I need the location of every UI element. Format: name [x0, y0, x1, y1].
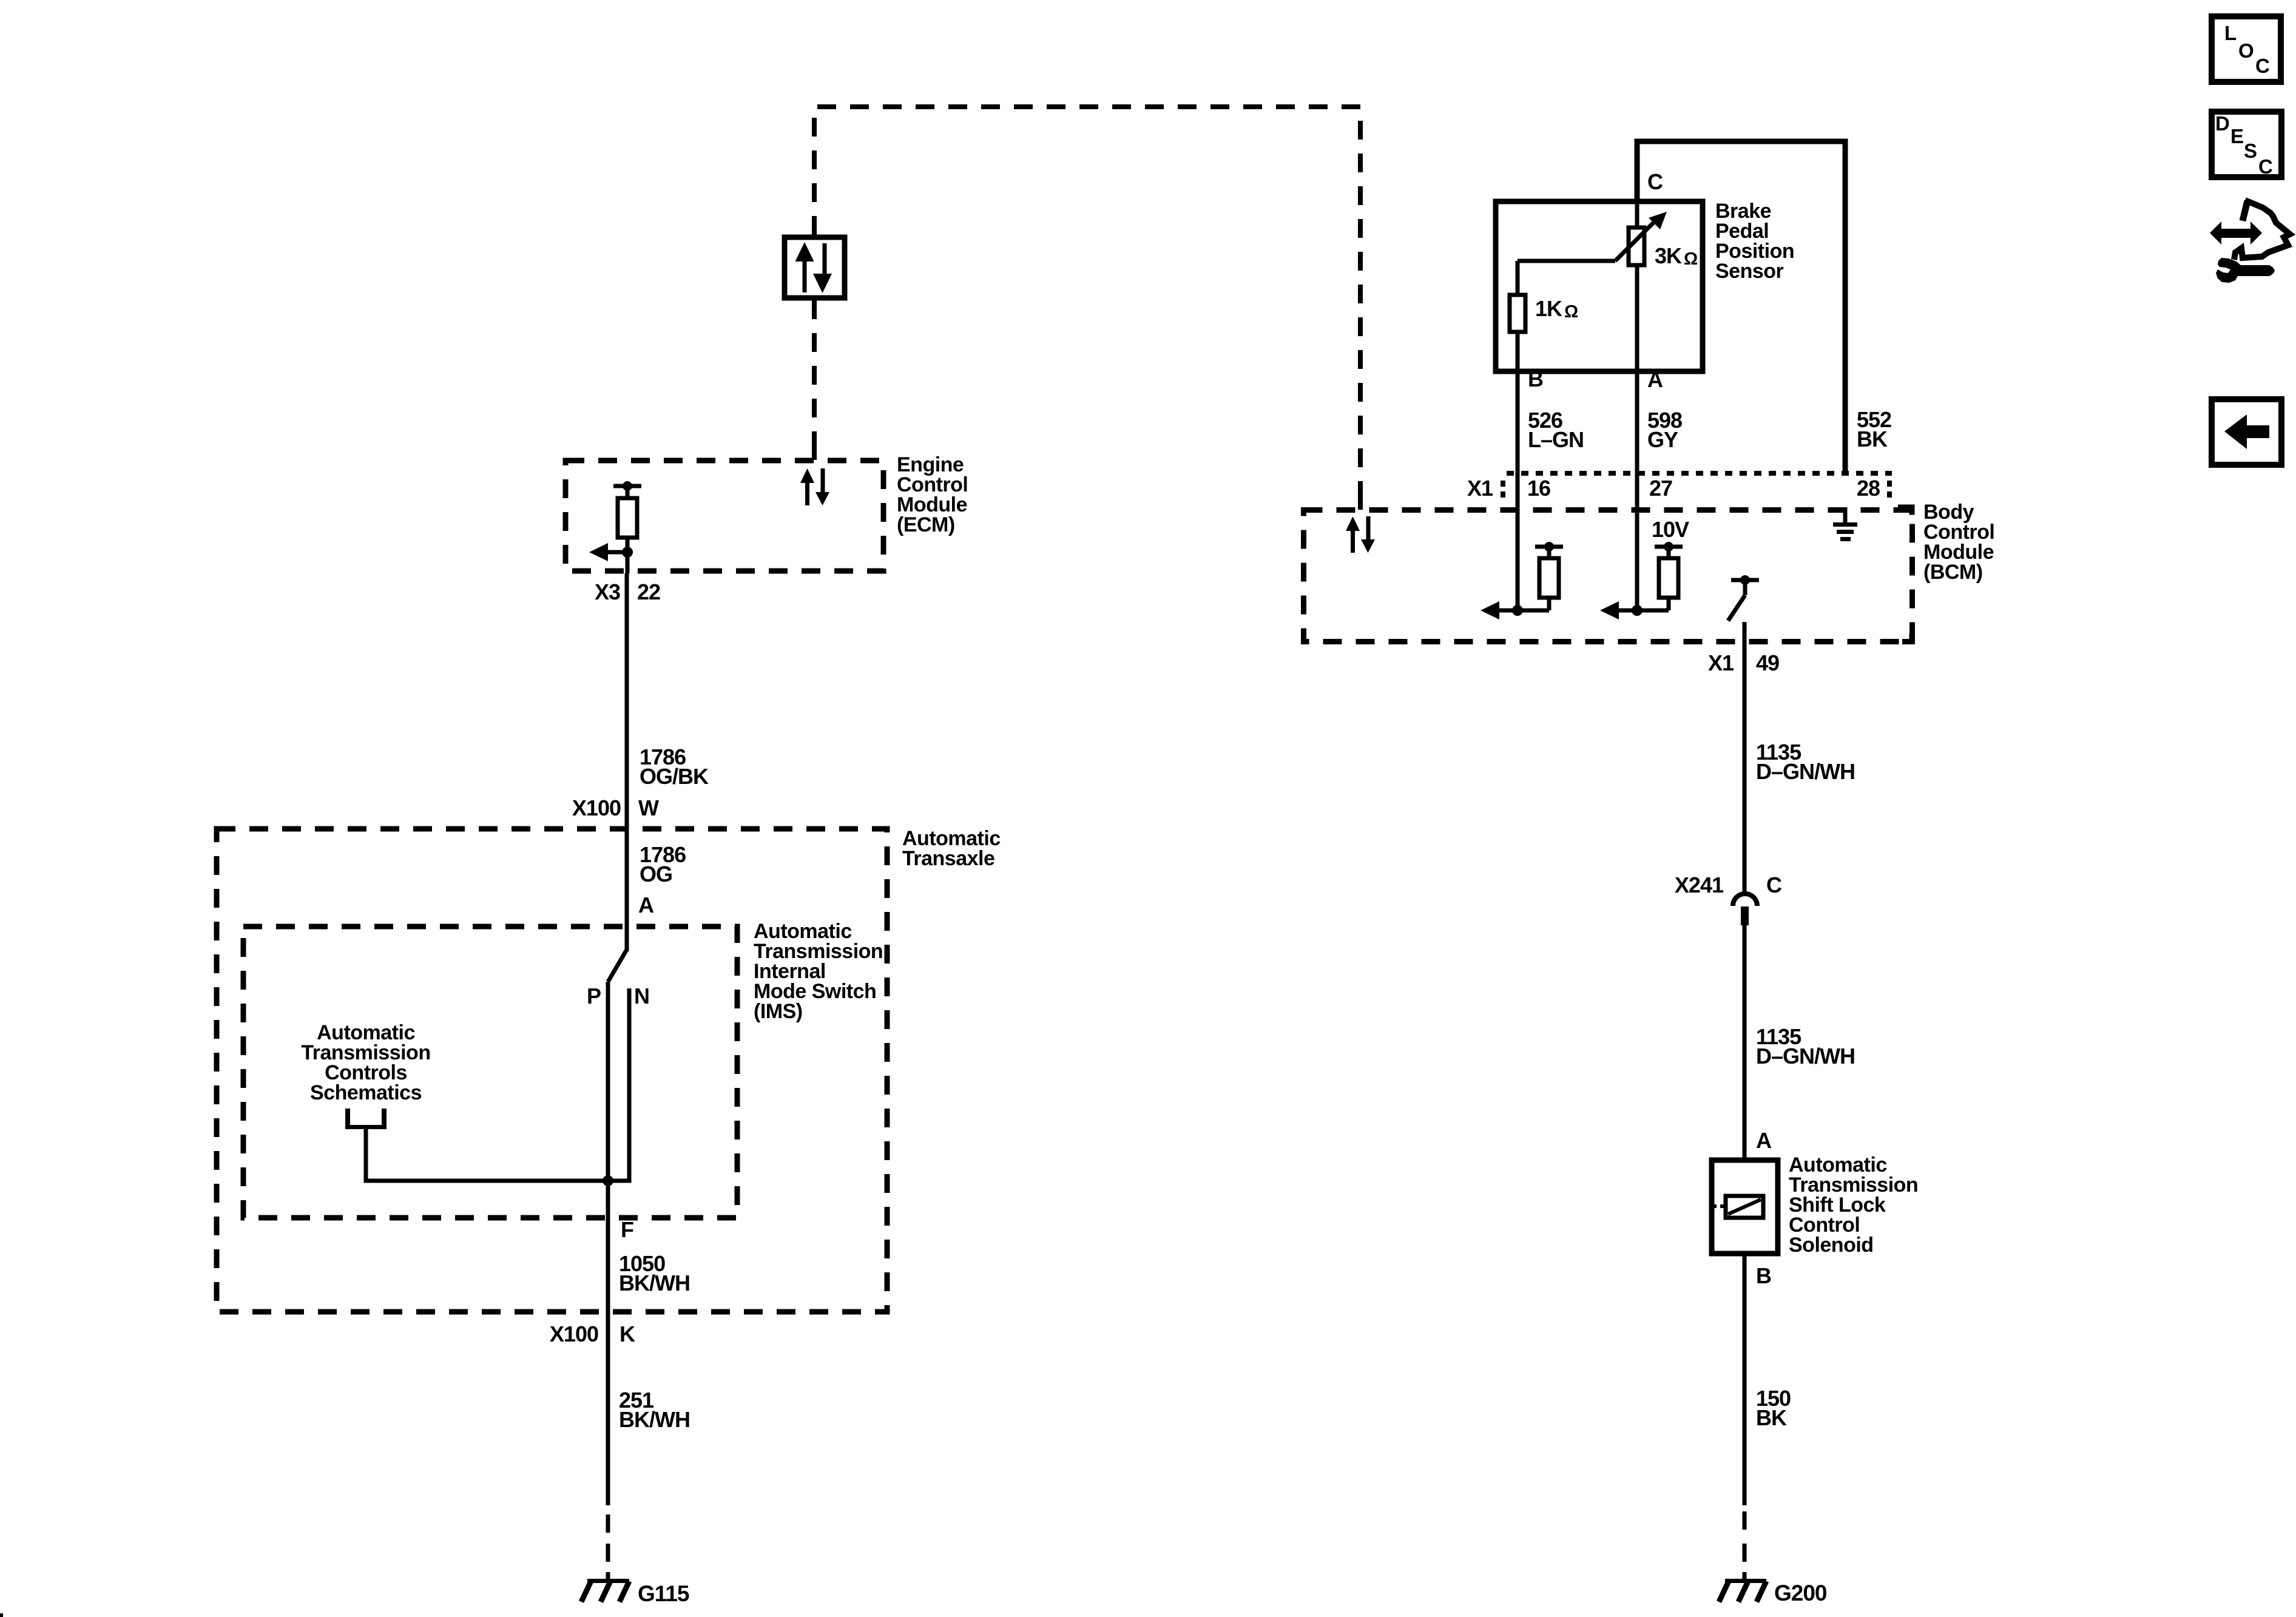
- svg-text:G115: G115: [638, 1581, 689, 1606]
- svg-text:Ω: Ω: [1564, 302, 1578, 322]
- label: Engine Control Module (ECM): [897, 453, 968, 536]
- svg-text:D–GN/WH: D–GN/WH: [1756, 1044, 1855, 1068]
- svg-text:N: N: [634, 984, 649, 1008]
- pin: BCM connector X1 pin 49: [1708, 650, 1779, 675]
- pin: sensor pin B: [1528, 366, 1543, 391]
- svg-text:D: D: [2215, 112, 2230, 135]
- wire: circuit 1050 BK/WH from IMS F to X100 K: [606, 1181, 690, 1314]
- wire: circuit 552 BK label: [1857, 407, 1891, 451]
- pin: inline connector X100 pin W: [572, 795, 659, 820]
- svg-text:G200: G200: [1774, 1581, 1827, 1605]
- svg-text:BK/WH: BK/WH: [619, 1407, 690, 1432]
- pin: IMS pin F: [621, 1217, 633, 1242]
- svg-text:49: 49: [1756, 650, 1779, 675]
- symbol: serial data arrows inside BCM: [1346, 516, 1375, 553]
- icon: LOC navigation box: [2212, 16, 2281, 82]
- component: ECM internal driver resistor with output arrow: [589, 481, 641, 573]
- svg-text:(BCM): (BCM): [1923, 561, 1983, 584]
- pin: sensor pin A: [1647, 367, 1663, 392]
- svg-text:X100: X100: [572, 795, 621, 820]
- pin: inline connector X100 pin K: [550, 1322, 635, 1346]
- svg-text:D–GN/WH: D–GN/WH: [1756, 759, 1855, 784]
- wire: sensor supply loop from sensor pin C over to circuit 552: [1637, 141, 1845, 471]
- svg-text:X3: X3: [595, 579, 620, 604]
- ground: G115: [581, 1579, 689, 1606]
- module: Body Control Module (BCM) dashed box: [1304, 501, 1995, 644]
- svg-text:GY: GY: [1647, 427, 1678, 452]
- svg-text:28: 28: [1857, 476, 1880, 501]
- svg-text:O: O: [2238, 39, 2254, 62]
- wire: circuit 251 BK/WH to ground G115: [606, 1314, 690, 1579]
- svg-text:P: P: [587, 984, 601, 1008]
- svg-text:K: K: [620, 1322, 635, 1346]
- resistor: 3K ohm potentiometer element: [1615, 201, 1698, 371]
- ground: G200: [1719, 1579, 1827, 1605]
- svg-text:B: B: [1528, 366, 1543, 391]
- pin: ECM connector X3 pin 22: [595, 579, 660, 604]
- icon: DESC navigation box: [2212, 112, 2281, 178]
- svg-text:OG: OG: [640, 862, 672, 886]
- wire: potentiometer wiper lead: [1518, 259, 1615, 263]
- wire: circuit 1135 D-GN/WH from X241 to solenoid A: [1743, 925, 1855, 1158]
- svg-text:(ECM): (ECM): [897, 513, 955, 536]
- svg-text:A: A: [1756, 1128, 1772, 1153]
- svg-text:X241: X241: [1675, 873, 1724, 897]
- svg-text:C: C: [1766, 873, 1782, 897]
- component: Automatic Transmission Shift Lock Control Solenoid: [1712, 1153, 1918, 1257]
- svg-text:L–GN: L–GN: [1528, 427, 1584, 452]
- svg-text:X100: X100: [550, 1322, 598, 1346]
- icon: service information (arrow through panel with wrench): [2210, 200, 2290, 283]
- svg-text:L: L: [2224, 22, 2237, 44]
- svg-text:Schematics: Schematics: [310, 1081, 422, 1104]
- component: Brake Pedal Position Sensor box: [1496, 200, 1794, 371]
- ground: BCM internal ground on circuit 552: [1833, 507, 1857, 541]
- icon: back arrow box: [2212, 399, 2281, 465]
- wire: circuit 526 L-GN from sensor B to BCM X1-16: [1516, 371, 1584, 610]
- svg-text:BK/WH: BK/WH: [619, 1271, 690, 1295]
- node: link to Automatic Transmission Controls Schematics: [301, 1021, 430, 1181]
- connector: BCM X1 dotted header with pins 16 27 28: [1467, 473, 1892, 501]
- svg-text:W: W: [638, 795, 659, 820]
- connector: X241 pin C inline connector: [1675, 873, 1782, 925]
- pin: solenoid pin B: [1756, 1263, 1771, 1288]
- svg-text:C: C: [2258, 155, 2273, 178]
- svg-text:(IMS): (IMS): [754, 1000, 803, 1023]
- component: IMS mode switch (P/N contacts): [587, 950, 649, 1181]
- serial data two-way symbol (boxed up/down arrows): [785, 237, 845, 298]
- svg-text:Sensor: Sensor: [1715, 260, 1784, 283]
- svg-text:27: 27: [1649, 476, 1672, 501]
- svg-text:Solenoid: Solenoid: [1789, 1234, 1874, 1257]
- wire: circuit 150 BK from solenoid B to ground G200: [1743, 1254, 1791, 1579]
- wire: circuit 598 GY from sensor A to BCM X1-27: [1635, 371, 1683, 610]
- svg-text:3K: 3K: [1655, 243, 1682, 268]
- svg-text:BK: BK: [1857, 427, 1888, 451]
- pin: IMS pin A: [638, 893, 654, 917]
- svg-text:1K: 1K: [1535, 296, 1562, 321]
- svg-text:X1: X1: [1708, 650, 1734, 675]
- svg-text:B: B: [1756, 1263, 1771, 1288]
- wire: circuit 1786 OG/BK from ECM X3-22 to transaxle: [625, 573, 709, 826]
- resistor: 1K ohm: [1510, 261, 1578, 371]
- wire: circuit 1786 OG inside transaxle: [625, 826, 686, 951]
- component: BCM shift-lock driver switch: [1728, 575, 1759, 621]
- artifact: page corner dot: [0, 1613, 3, 1617]
- svg-text:16: 16: [1527, 476, 1550, 501]
- svg-text:22: 22: [637, 579, 660, 604]
- svg-text:X1: X1: [1467, 476, 1493, 501]
- resistor: BCM pull-up on circuit 526 with output arrow: [1481, 542, 1563, 619]
- svg-text:A: A: [1647, 367, 1663, 392]
- svg-text:A: A: [638, 893, 654, 917]
- svg-text:Transaxle: Transaxle: [902, 847, 994, 870]
- wire: jumper from schematics link to P/N junction: [364, 1175, 632, 1186]
- pin: solenoid pin A: [1756, 1128, 1772, 1153]
- svg-text:OG/BK: OG/BK: [640, 764, 709, 789]
- svg-text:BK: BK: [1756, 1405, 1787, 1430]
- svg-text:E: E: [2230, 125, 2244, 147]
- svg-text:S: S: [2244, 140, 2257, 162]
- module: Engine Control Module (ECM) dashed box: [566, 461, 883, 571]
- svg-text:10V: 10V: [1652, 517, 1689, 542]
- svg-text:C: C: [1647, 169, 1663, 194]
- module: Automatic Transmission Internal Mode Switch (IMS) dashed box: [243, 920, 883, 1218]
- wire: dashed serial data bus ECM-to-BCM top route: [814, 107, 1360, 510]
- svg-text:F: F: [621, 1217, 633, 1242]
- resistor: BCM 10V pull-up on circuit 598 with output arrow: [1600, 517, 1689, 619]
- symbol: serial data arrows inside ECM: [800, 468, 829, 505]
- svg-text:C: C: [2255, 55, 2270, 77]
- wire: circuit 1135 D-GN/WH from BCM X1-49 to X241: [1743, 622, 1855, 892]
- svg-text:Ω: Ω: [1684, 249, 1698, 269]
- module: Automatic Transaxle dashed box: [217, 827, 1001, 1312]
